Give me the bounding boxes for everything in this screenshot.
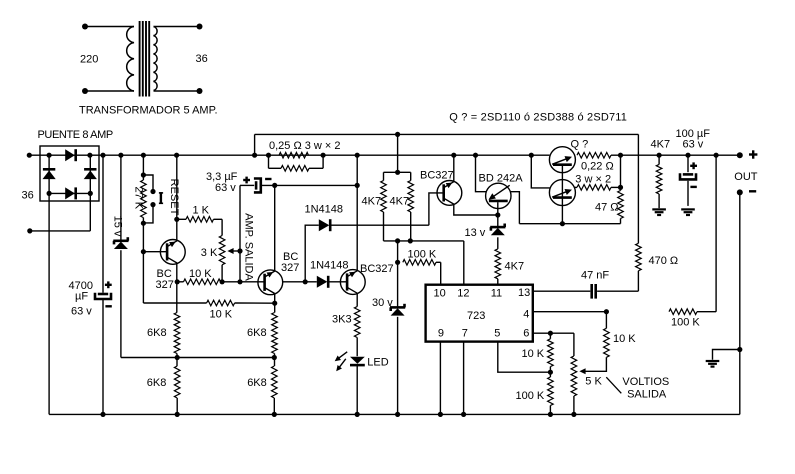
transistor Q3 BC327 [340, 270, 365, 295]
resistor R 4K7 d [658, 155, 660, 164]
wire pin9 ground [439, 342, 441, 415]
svg-text:6K8: 6K8 [247, 327, 267, 339]
junction dot rail x143 [141, 153, 146, 158]
wire top line riser left [254, 134, 256, 155]
capacitor C 100uF wire [687, 155, 689, 172]
resistor R 6K8 b [174, 366, 180, 398]
svg-text:5: 5 [494, 327, 500, 339]
junction dot bases [560, 221, 565, 226]
resistor R 3K3 [354, 307, 360, 338]
wire base drive line [519, 223, 620, 225]
svg-text:4K7: 4K7 [362, 196, 382, 208]
resistor 27K wire [142, 155, 144, 180]
led arrows [338, 352, 347, 359]
capacitor C 3.3uF [255, 181, 258, 189]
transistor Q4 BC327 [437, 181, 462, 206]
svg-text:11: 11 [491, 288, 502, 300]
wire Q bases [561, 165, 563, 224]
junction dot rail x620 [618, 153, 623, 158]
junction dot top line left [252, 153, 257, 158]
svg-text:100 K: 100 K [671, 317, 700, 329]
wire Q5 down lead [497, 202, 499, 215]
svg-text:SALIDA: SALIDA [627, 389, 667, 401]
wire Q3 emitter [356, 293, 358, 306]
wire Q2 collector [274, 185, 276, 271]
svg-text:1N4148: 1N4148 [305, 203, 344, 215]
junction dot Q2 emitter [272, 301, 277, 306]
capacitor C 47nF [590, 284, 593, 299]
polarity + output [749, 153, 757, 155]
resistor R 0.22 a [577, 152, 611, 158]
switch RESET button [160, 192, 162, 204]
diode D5 1N4148 [319, 219, 330, 231]
junction dot rail x531 [529, 153, 534, 158]
junction dot 100K left [395, 260, 400, 265]
zener diode ZD3 13v [497, 215, 499, 227]
resistor R 0.22 b [577, 185, 611, 191]
junction dot rail x357 [355, 153, 360, 158]
junction dot rail x475 [473, 153, 478, 158]
ground symbol c wire [713, 350, 740, 360]
svg-text:4: 4 [523, 309, 529, 321]
wire bottom rail [49, 413, 740, 415]
junction dot x357 cap line [355, 183, 360, 188]
wire top rail [29, 154, 549, 156]
resistor R 10K b [548, 339, 554, 367]
polarity - 100uF [690, 186, 696, 188]
node AC input top terminal [27, 153, 32, 158]
resistor R 4K7 c [495, 249, 501, 279]
bridge diode D4 right [84, 168, 96, 171]
svg-text:LED: LED [367, 356, 388, 368]
svg-text:6K8: 6K8 [247, 377, 267, 389]
diode D6 1N4148 wire [283, 281, 317, 283]
svg-text:327: 327 [156, 279, 174, 291]
junction dot rail x716 [714, 153, 719, 158]
svg-text:0,25 Ω 3 w × 2: 0,25 Ω 3 w × 2 [269, 140, 341, 152]
polarity + 4700uF [105, 284, 112, 286]
resistor R 100K a [403, 260, 436, 266]
junction dots 0.25ohm [266, 153, 271, 158]
node output + terminal [737, 152, 743, 158]
wire output minus column [739, 192, 741, 414]
svg-text:63 v: 63 v [683, 138, 704, 150]
potentiometer 5K [573, 333, 575, 356]
capacitor C 100uF [683, 173, 693, 176]
bridge diode D1 top [65, 149, 75, 161]
resistor R 470ohm [637, 134, 639, 243]
svg-text:3 w × 2: 3 w × 2 [575, 173, 611, 185]
junction dots bottom rail [100, 412, 105, 417]
callout line voltios [606, 377, 621, 393]
junction dots 4K7 bottom [395, 238, 400, 243]
resistor R 1K [186, 217, 214, 223]
resistor R 0.25ohm b [268, 155, 270, 168]
svg-text:27 K: 27 K [132, 186, 144, 209]
polarity + 100uF [690, 165, 697, 167]
junction dot rail x121 [118, 153, 123, 158]
bridge diode D2 bottom [65, 187, 75, 199]
wire mid ground rail [121, 357, 274, 359]
node AC input bottom terminal [27, 228, 32, 233]
junction dot pin6 [548, 331, 553, 336]
wire Q5 right lead [511, 192, 520, 224]
svg-text:OUT: OUT [734, 171, 758, 183]
potentiometer 3K body [221, 219, 223, 235]
wire bridge left output [48, 155, 50, 414]
svg-text:220: 220 [80, 54, 98, 66]
svg-text:4K7: 4K7 [505, 260, 525, 272]
ground symbol c [706, 360, 720, 362]
svg-text:4K7: 4K7 [651, 138, 671, 150]
polarity - 4700uF [105, 305, 111, 307]
junction dot 3K bottom [220, 279, 225, 284]
zener diode 15v wire [120, 155, 122, 240]
transistor Q1 BC327 [160, 240, 185, 265]
junction dot wiper column [237, 279, 242, 284]
svg-text:0,22 Ω: 0,22 Ω [581, 161, 614, 173]
svg-text:10 K: 10 K [189, 268, 212, 280]
svg-text:BC327: BC327 [360, 263, 394, 275]
ground symbol a [652, 208, 666, 210]
svg-text:7: 7 [462, 327, 468, 339]
junction dot pin5 node [548, 370, 553, 375]
wire bridge interior [49, 192, 90, 194]
resistor R 27K [141, 180, 147, 218]
wire collector column x177 [176, 155, 178, 240]
wire pin7 ground [463, 342, 465, 415]
svg-text:63 v: 63 v [71, 306, 92, 318]
svg-text:10 K: 10 K [210, 309, 233, 321]
svg-text:15 v: 15 v [112, 216, 124, 237]
svg-text:5 K: 5 K [585, 376, 602, 388]
svg-text:12: 12 [457, 288, 469, 300]
junction dot 47ohm top [618, 185, 623, 190]
svg-text:9: 9 [438, 327, 444, 339]
svg-text:13: 13 [518, 287, 530, 299]
resistor R 10K c [605, 312, 607, 329]
svg-text:10 K: 10 K [522, 348, 545, 360]
junction dot mid rail b [272, 355, 277, 360]
junction dot x498 [495, 212, 500, 217]
zener diode ZD1 15v [113, 240, 128, 243]
wire base junction dot [141, 249, 146, 254]
junction dot collector Q2 [272, 183, 277, 188]
svg-text:13 v: 13 v [465, 227, 486, 239]
ground symbol b [681, 208, 695, 210]
switch RESET contacts [141, 172, 146, 177]
zener diode ZD2 30v [390, 306, 405, 309]
svg-text:6K8: 6K8 [147, 327, 167, 339]
wire Q5 base from rail [476, 155, 487, 192]
wire 30v column [397, 241, 399, 307]
wire Q4 emitter [454, 204, 498, 215]
junction dot top line x397 [395, 132, 400, 137]
svg-text:BC: BC [157, 268, 172, 280]
resistor R 6K8 a [174, 313, 180, 354]
wire pin5 [498, 342, 551, 373]
wire 4K7 pair bottom [384, 240, 411, 242]
wire Q4 collector [453, 155, 455, 182]
wire Q1 base [143, 251, 167, 253]
potentiometer 3K wiper [230, 250, 240, 252]
diode D6 1N4148 [317, 276, 328, 288]
svg-text:47 Ω: 47 Ω [595, 201, 619, 213]
resistor R 4K7 b [410, 172, 412, 180]
junction dot rail x103 [100, 153, 105, 158]
junction dot rail x688 [685, 153, 690, 158]
resistor R 10K row2 [207, 300, 235, 306]
transistor Q6 top [549, 147, 575, 173]
svg-text:BD 242A: BD 242A [479, 172, 524, 184]
svg-text:47 nF: 47 nF [581, 269, 609, 281]
wire rail riser x357 [356, 155, 358, 185]
svg-text:6: 6 [523, 327, 529, 339]
capacitor C 3.3uF wire [240, 184, 254, 186]
wire Q3 collector [356, 185, 358, 271]
svg-text:4K7: 4K7 [390, 196, 410, 208]
svg-text:63 v: 63 v [215, 182, 236, 194]
resistor R 47ohm [620, 155, 622, 190]
svg-text:100 K: 100 K [408, 248, 437, 260]
capacitor C 4700uF [98, 293, 108, 296]
wire Q7 collector from rail [531, 155, 549, 188]
capacitor C 47nF wire [533, 290, 591, 292]
junction dot rail x454 [451, 153, 456, 158]
junction dot 1K left [174, 217, 179, 222]
svg-text:VOLTIOS: VOLTIOS [622, 376, 669, 388]
svg-text:36: 36 [196, 53, 208, 65]
svg-text:327: 327 [281, 262, 299, 274]
svg-text:3K3: 3K3 [332, 313, 352, 325]
junction dot 4K7 top [395, 170, 400, 175]
svg-text:3 K: 3 K [201, 247, 218, 259]
junction dot mid rail a [175, 355, 180, 360]
svg-text:1N4148: 1N4148 [310, 259, 349, 271]
svg-text:1 K: 1 K [193, 205, 210, 217]
wire top feedback line [255, 133, 639, 135]
svg-text:3,3 µF: 3,3 µF [206, 171, 238, 183]
svg-text:470 Ω: 470 Ω [649, 255, 679, 267]
bridge diode D3 left [43, 168, 55, 171]
led LED1 [350, 357, 365, 364]
switch RESET wiring [143, 175, 153, 192]
transistor Q5 BD242A [486, 183, 511, 208]
node output - terminal [737, 189, 743, 195]
wire wiper column x240 [239, 185, 241, 281]
bridge rectifier box [40, 146, 99, 201]
junction dot diode row2 [303, 279, 308, 284]
junction dot rail x177 [174, 153, 179, 158]
svg-text:10: 10 [434, 288, 446, 300]
svg-text:RESET: RESET [168, 179, 180, 216]
wire Q2 emitter [274, 294, 276, 313]
diode D5 1N4148 wire [305, 225, 319, 282]
resistor R 4K7 a [383, 172, 385, 180]
svg-text:10 K: 10 K [613, 333, 636, 345]
svg-text:µF: µF [75, 291, 88, 303]
resistor R 100K c [669, 309, 697, 315]
svg-text:PUENTE 8 AMP: PUENTE 8 AMP [38, 129, 113, 141]
wire Q2 base [240, 281, 265, 283]
wire bridge right output [89, 155, 91, 231]
transistor Q7 bottom [549, 180, 575, 206]
svg-text:723: 723 [467, 310, 485, 322]
junction dot ground tap [737, 347, 742, 352]
resistor R 6K8 d [272, 366, 278, 398]
polarity + 3.3uF [243, 179, 250, 181]
capacitor 4700uF wire [102, 155, 104, 293]
junction dot rail x659 [657, 153, 662, 158]
resistor R 100K b [549, 372, 551, 377]
wire pin4 [533, 311, 607, 313]
svg-text:Q ?: Q ? [571, 139, 589, 151]
wire 100K feedback riser [715, 155, 717, 312]
transistor Q2 BC327 [258, 270, 283, 295]
junction dots bridge [47, 153, 52, 158]
polarity - 3.3uF [265, 178, 271, 180]
svg-text:Q ? = 2SD110 ó 2SD388 ó 2SD71: Q ? = 2SD110 ó 2SD388 ó 2SD711 [449, 112, 627, 124]
svg-text:TRANSFORMADOR 5 AMP.: TRANSFORMADOR 5 AMP. [79, 105, 218, 117]
svg-text:AMP. SALIDA: AMP. SALIDA [242, 213, 254, 281]
junction dot pin4 node [604, 309, 609, 314]
transformer T1 [82, 21, 203, 97]
svg-text:36: 36 [22, 189, 34, 201]
wire 4K7 pair top [397, 134, 399, 172]
svg-text:BC327: BC327 [420, 170, 454, 182]
ic U1 723 box [426, 285, 533, 342]
polarity - output [749, 190, 756, 192]
resistor R 0.25ohm a [279, 152, 309, 158]
wire pin6 [533, 332, 574, 334]
svg-text:30 v: 30 v [372, 297, 393, 309]
resistor R 10K row1 [177, 281, 183, 283]
svg-text:100 K: 100 K [516, 390, 545, 402]
resistor R 6K8 c [272, 313, 278, 354]
svg-text:6K8: 6K8 [147, 377, 167, 389]
junction dot 10K row1 left [175, 279, 180, 284]
